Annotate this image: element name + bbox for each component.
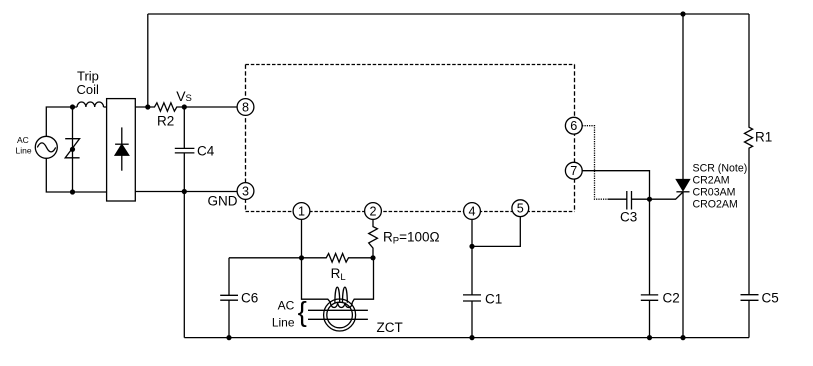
svg-text:VS: VS xyxy=(176,88,192,104)
svg-text:Coil: Coil xyxy=(77,82,100,97)
svg-text:1: 1 xyxy=(298,204,305,218)
svg-text:3: 3 xyxy=(242,184,249,198)
svg-text:7: 7 xyxy=(570,164,577,178)
svg-text:8: 8 xyxy=(242,100,249,114)
svg-text:SCR (Note): SCR (Note) xyxy=(693,162,748,174)
svg-text:6: 6 xyxy=(570,119,577,133)
svg-text:4: 4 xyxy=(468,204,475,218)
svg-text:RP=100Ω: RP=100Ω xyxy=(383,230,440,247)
svg-text:GND: GND xyxy=(208,194,238,209)
svg-text:C1: C1 xyxy=(485,291,502,306)
svg-text:C3: C3 xyxy=(620,209,637,224)
svg-text:CR03AM: CR03AM xyxy=(693,186,736,198)
svg-text:CR2AM: CR2AM xyxy=(693,174,730,186)
svg-text:C4: C4 xyxy=(197,143,215,158)
svg-text:AC: AC xyxy=(278,299,295,313)
svg-text:{: { xyxy=(298,296,307,327)
svg-text:RL: RL xyxy=(331,266,346,283)
svg-text:Line: Line xyxy=(272,315,295,329)
svg-text:ZCT: ZCT xyxy=(377,320,403,335)
svg-text:Line: Line xyxy=(16,146,32,156)
svg-text:5: 5 xyxy=(517,202,524,216)
svg-text:AC: AC xyxy=(17,135,29,145)
svg-text:C6: C6 xyxy=(241,290,258,305)
svg-text:R1: R1 xyxy=(755,130,772,145)
svg-text:2: 2 xyxy=(369,204,376,218)
svg-text:CRO2AM: CRO2AM xyxy=(693,198,738,210)
svg-text:C5: C5 xyxy=(762,290,779,305)
svg-text:R2: R2 xyxy=(157,114,174,129)
svg-text:C2: C2 xyxy=(663,290,680,305)
